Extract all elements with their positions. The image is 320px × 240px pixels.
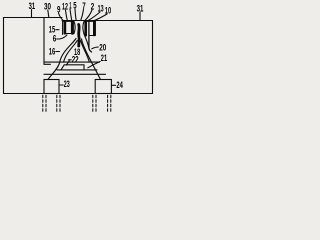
lead wires box 24 [93,95,111,112]
svg-text:24: 24 [116,80,123,90]
chamber top-right edge [96,20,153,22]
leader for 1 [70,9,72,20]
nozzle right pinch [83,22,84,35]
lead wires box 23 [43,95,60,112]
crucible box 23 [44,80,59,94]
svg-text:2: 2 [91,2,95,12]
platform stub line [44,63,51,65]
evaporation boat 22 [61,65,84,70]
table top line [57,69,97,71]
svg-text:6: 6 [53,34,57,44]
leader for 5 [75,9,76,20]
nozzle right flare [84,34,89,48]
gun left electrode top edge [63,20,74,22]
bell inner wall left [64,41,78,63]
gun right electrode top edge [84,20,95,22]
svg-text:23: 23 [64,79,70,89]
leader for 31 left [31,10,33,18]
svg-text:1: 1 [69,1,71,11]
svg-text:10: 10 [105,6,111,16]
svg-text:13: 13 [98,4,104,14]
chamber top-left edge [4,17,63,19]
gun top plate [62,20,96,22]
right vapor line to box 24 [82,39,101,80]
crucible box 24 [95,80,111,94]
leader for 10 [94,14,107,21]
leader for 16 [56,51,60,53]
gun right tube wall [89,22,92,53]
svg-text:21: 21 [101,53,107,63]
leader for 6 [57,35,67,39]
leader for 21 [88,61,100,67]
leader for 24 [112,84,116,86]
svg-text:30: 30 [44,2,51,12]
gun right electrode bottom edge [89,35,95,37]
chamber bottom wall [4,93,153,95]
leader for 9 [59,13,64,20]
nozzle left pinch [74,22,75,34]
gun left electrode bottom edge [64,33,74,35]
svg-text:12: 12 [62,2,68,12]
svg-text:16: 16 [49,47,56,57]
svg-text:9: 9 [57,5,61,15]
svg-text:22: 22 [72,55,79,65]
leader for 7 [81,10,84,21]
gun left electrode left bar [64,22,67,34]
svg-text:31: 31 [29,1,36,11]
inner partition wall [43,18,45,65]
left vapor line to box 23 [48,39,76,80]
svg-text:31: 31 [137,4,144,14]
svg-text:20: 20 [99,43,106,53]
leader for 20 [92,47,99,49]
leader for 31 right [139,12,141,20]
gun right electrode outer wall [94,21,96,36]
svg-text:7: 7 [82,1,86,11]
leader for 23 [60,84,64,86]
leader for 12 [66,10,68,20]
gun left electrode inner bar [71,22,74,34]
gun right tube inner bar [84,22,87,35]
gun left outer wall [62,21,64,35]
arrow for 22 [66,61,69,65]
bell inner wall right [81,41,90,63]
chamber right wall [152,21,154,94]
svg-text:5: 5 [73,1,76,11]
table bottom line [44,73,106,75]
chamber left wall [3,18,5,94]
plasma beam [77,25,80,47]
leader for 15 [56,29,59,31]
leader for 13 [88,12,100,21]
leader for 30 [48,10,49,17]
leader for 2 [85,10,92,21]
leader for 22 [68,59,71,61]
gun right electrode right bar [93,22,95,35]
anode plate line [44,61,100,63]
